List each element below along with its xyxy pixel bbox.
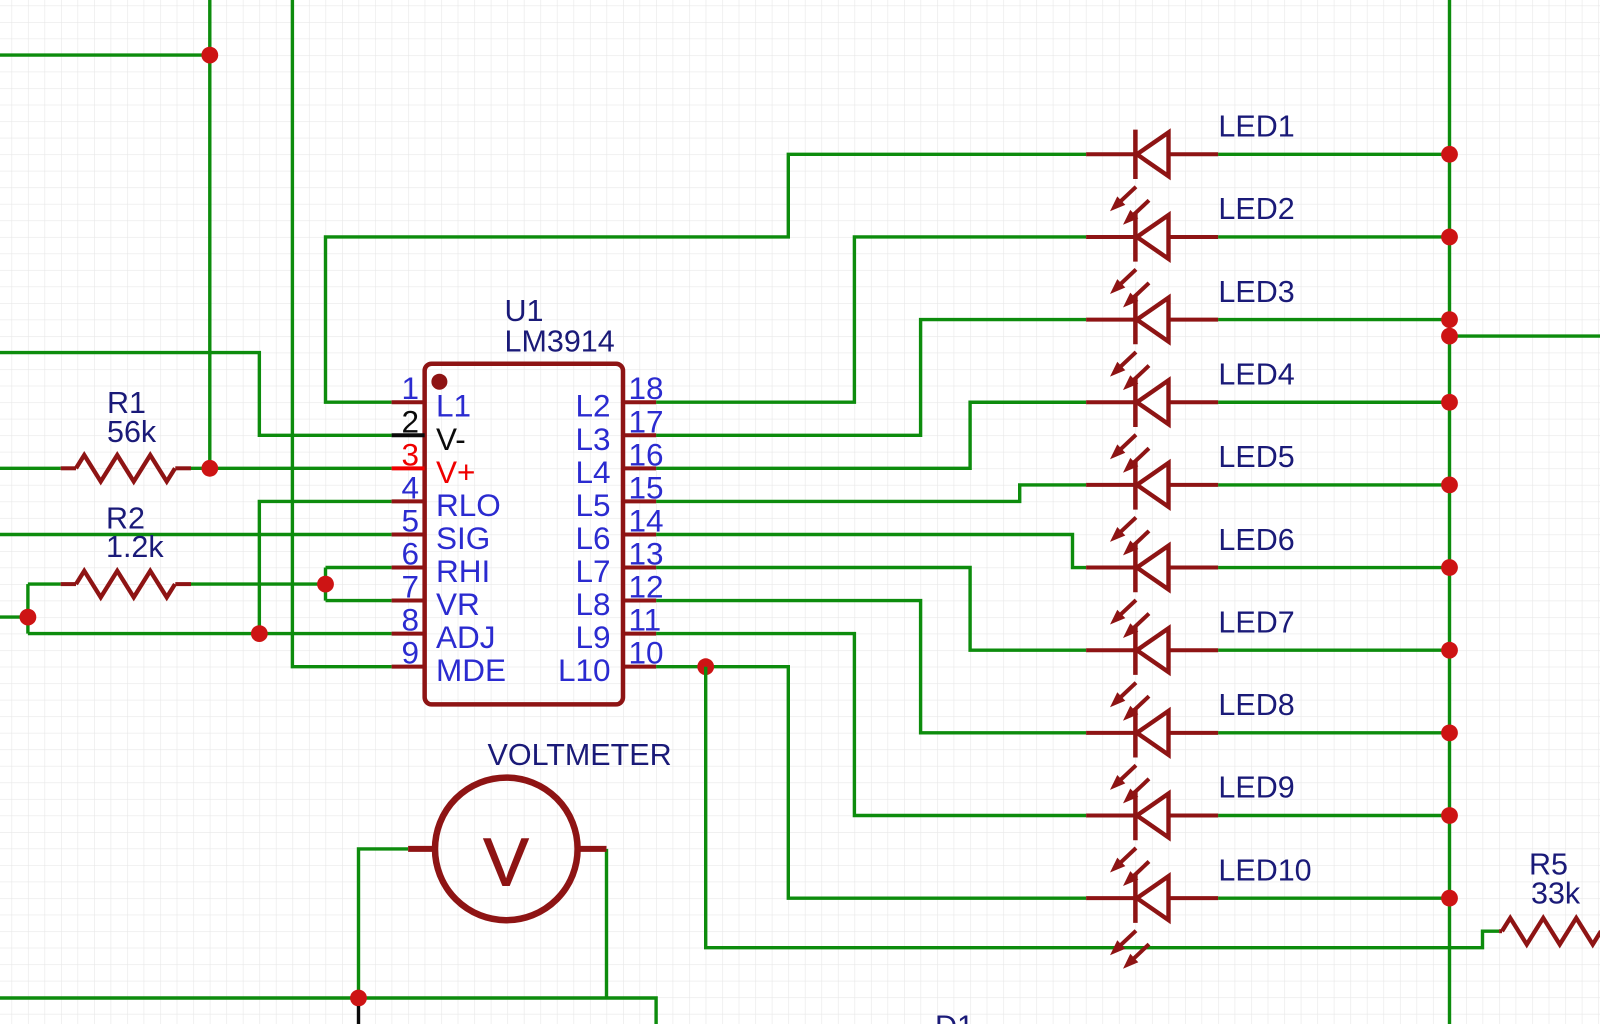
svg-text:D1: D1 — [935, 1010, 974, 1024]
U1 pin 16 (L4) — [575, 436, 663, 490]
wire net L8: U1 pin 12 to LED8 — [656, 601, 1086, 733]
wire L10 branch down to R5 — [706, 667, 1499, 948]
wire VR net to U1 pin 7 — [326, 599, 392, 602]
junction R1 / V+ column — [201, 460, 218, 477]
svg-text:16: 16 — [629, 436, 664, 472]
svg-text:L1: L1 — [436, 388, 471, 424]
svg-text:RLO: RLO — [436, 487, 501, 523]
U1 pin 10 (L10) — [558, 635, 664, 689]
svg-text:SIG: SIG — [436, 520, 490, 556]
LED10 — [1086, 873, 1218, 968]
wire ADJ net horizontal to U1 pin 8 — [28, 632, 392, 635]
junction bus / LED7 — [1441, 642, 1458, 659]
wire net L1: U1 pin 1 to LED1 — [326, 154, 1087, 402]
junction top-left — [201, 47, 218, 64]
wire LED3 anode to bus — [1218, 318, 1449, 321]
svg-text:9: 9 — [401, 635, 419, 671]
svg-text:L6: L6 — [575, 520, 610, 556]
svg-text:LED6: LED6 — [1218, 523, 1294, 557]
U1 pin 18 (L2) — [575, 370, 663, 424]
wire LED8 anode to bus — [1218, 731, 1449, 734]
svg-text:VR: VR — [436, 586, 480, 622]
wire R2 left lead link — [28, 582, 61, 585]
svg-text:15: 15 — [629, 469, 664, 505]
svg-text:VOLTMETER: VOLTMETER — [488, 738, 672, 772]
svg-text:RHI: RHI — [436, 553, 490, 589]
wire V+ net left segment — [0, 467, 61, 470]
LED7 — [1086, 626, 1218, 721]
wire left edge stub into R2 node — [0, 615, 28, 618]
svg-text:13: 13 — [629, 536, 664, 572]
svg-text:LED3: LED3 — [1218, 275, 1294, 309]
junction bus / LED9 — [1441, 807, 1458, 824]
junction R2 / RHI / VR — [317, 576, 334, 593]
junction bus / LED8 — [1441, 724, 1458, 741]
svg-text:LED10: LED10 — [1218, 853, 1311, 887]
svg-text:LED1: LED1 — [1218, 110, 1294, 144]
wire V- net to U1 pin 2 — [0, 353, 392, 436]
svg-text:3: 3 — [401, 436, 419, 472]
resistor R2 — [61, 502, 191, 598]
LED9 — [1086, 791, 1218, 886]
svg-text:LED9: LED9 — [1218, 771, 1294, 805]
wire bottom horizontal — [0, 998, 656, 1024]
wire top-left horizontal net — [0, 53, 210, 56]
svg-text:V+: V+ — [436, 454, 475, 490]
svg-text:1: 1 — [401, 370, 419, 406]
U1 pin 5 (SIG) — [392, 502, 491, 556]
U1 pin 14 (L6) — [575, 502, 663, 556]
U1 pin 8 (ADJ) — [392, 602, 496, 656]
wire net L5: U1 pin 15 to LED5 — [656, 485, 1086, 502]
LED3 — [1086, 295, 1218, 390]
wire voltmeter left — [359, 849, 409, 998]
wire net L7: U1 pin 13 to LED7 — [656, 568, 1086, 651]
wire SIG net to U1 pin 5 — [0, 533, 392, 536]
U1 pin 6 (RHI) — [392, 536, 491, 590]
wire net L9: U1 pin 11 to LED9 — [656, 634, 1086, 816]
U1 pin 12 (L8) — [575, 569, 663, 623]
wire D1 black stub — [357, 1006, 360, 1024]
U1 pin 2 (V-) — [392, 403, 466, 457]
LED5 — [1086, 460, 1218, 555]
U1 pin 17 (L3) — [575, 403, 663, 457]
U1 pin 13 (L7) — [575, 536, 663, 590]
junction bus / LED10 — [1441, 890, 1458, 907]
wire V+ net from R1 to U1 pin 3 — [191, 467, 392, 470]
svg-text:LED4: LED4 — [1218, 357, 1294, 391]
LED6 — [1086, 543, 1218, 638]
svg-text:LED2: LED2 — [1218, 192, 1294, 226]
svg-text:L7: L7 — [575, 553, 610, 589]
wire LED10 anode to bus — [1218, 896, 1449, 899]
wire net L4: U1 pin 16 to LED4 — [656, 402, 1086, 468]
U1 pin 15 (L5) — [575, 469, 663, 523]
svg-text:LED5: LED5 — [1218, 440, 1294, 474]
wire net L10: U1 pin 10 to LED10 — [656, 667, 1086, 898]
svg-text:LED7: LED7 — [1218, 605, 1294, 639]
wire voltmeter right vertical — [605, 849, 608, 998]
wire LED9 anode to bus — [1218, 814, 1449, 817]
wire net L3: U1 pin 17 to LED3 — [656, 320, 1086, 436]
U1 pin 4 (RLO) — [392, 469, 501, 523]
voltmeter M1 — [408, 778, 606, 921]
svg-text:ADJ: ADJ — [436, 619, 496, 655]
svg-text:1.2k: 1.2k — [106, 530, 164, 564]
junction bus / LED2 — [1441, 229, 1458, 246]
svg-text:12: 12 — [629, 569, 664, 605]
U1 pin-1 origin dot — [431, 374, 447, 390]
LED4 — [1086, 378, 1218, 473]
svg-text:L5: L5 — [575, 487, 610, 523]
svg-text:2: 2 — [401, 403, 419, 439]
svg-text:8: 8 — [401, 602, 419, 638]
svg-text:4: 4 — [401, 469, 419, 505]
wire RHI/VR vertical — [324, 568, 327, 601]
svg-text:LM3914: LM3914 — [505, 325, 615, 359]
U1 pin 1 (L1) — [392, 370, 471, 424]
svg-text:7: 7 — [401, 569, 419, 605]
U1 pin 7 (VR) — [392, 569, 480, 623]
svg-text:L4: L4 — [575, 454, 610, 490]
resistor R5 — [1499, 848, 1600, 945]
svg-text:14: 14 — [629, 502, 664, 538]
wire LED1 anode to bus — [1218, 153, 1449, 156]
wire LED4 anode to bus — [1218, 401, 1449, 404]
svg-text:L9: L9 — [575, 619, 610, 655]
wire net L2: U1 pin 18 to LED2 — [656, 237, 1086, 402]
svg-text:33k: 33k — [1531, 877, 1581, 911]
svg-text:L8: L8 — [575, 586, 610, 622]
junction bus / LED1 — [1441, 146, 1458, 163]
LED8 — [1086, 708, 1218, 803]
svg-text:MDE: MDE — [436, 652, 506, 688]
U1 pin 3 (V+) — [392, 436, 476, 490]
svg-text:L3: L3 — [575, 421, 610, 457]
wire RLO net from U1 pin 4 down to ADJ row — [259, 501, 391, 633]
junction bus / LED3 — [1441, 311, 1458, 328]
svg-text:18: 18 — [629, 370, 664, 406]
U1 pin 9 (MDE) — [392, 635, 506, 689]
svg-text:56k: 56k — [107, 415, 157, 449]
junction bus branch — [1441, 328, 1458, 345]
svg-text:V-: V- — [436, 421, 466, 457]
wire R2 right to RHI/VR junction — [191, 582, 326, 585]
svg-text:10: 10 — [629, 635, 664, 671]
junction bus / LED5 — [1441, 477, 1458, 494]
wire MDE net vertical and to U1 pin 9 — [292, 0, 391, 667]
junction ADJ / RLO node — [251, 625, 268, 642]
svg-text:17: 17 — [629, 403, 664, 439]
IC U1 LM3914 body — [425, 294, 623, 704]
junction L10 branch — [697, 658, 714, 675]
svg-text:11: 11 — [629, 602, 662, 638]
LED1 — [1086, 130, 1218, 225]
LED2 — [1086, 212, 1218, 307]
junction bottom / D1 node — [350, 990, 367, 1007]
wire LED7 anode to bus — [1218, 649, 1449, 652]
U1 pin 11 (L9) — [575, 602, 661, 656]
wire net L6: U1 pin 14 to LED6 — [656, 535, 1086, 568]
wire vertical drop to R1 junction — [208, 0, 211, 468]
junction bus / LED4 — [1441, 394, 1458, 411]
svg-text:L2: L2 — [575, 388, 610, 424]
wire LED5 anode to bus — [1218, 483, 1449, 486]
wire R2 left vertical — [26, 584, 29, 634]
junction R2-left node — [20, 609, 37, 626]
wire LED6 anode to bus — [1218, 566, 1449, 569]
svg-text:LED8: LED8 — [1218, 688, 1294, 722]
wire right vertical bus — [1448, 0, 1451, 1024]
svg-text:V: V — [483, 825, 529, 901]
wire LED2 anode to bus — [1218, 235, 1449, 238]
resistor R1 — [61, 386, 191, 482]
junction bus / LED6 — [1441, 559, 1458, 576]
wire bus branch to right edge — [1450, 334, 1600, 337]
svg-text:L10: L10 — [558, 652, 611, 688]
wire RHI net to U1 pin 6 — [326, 566, 392, 569]
svg-text:U1: U1 — [505, 294, 544, 328]
svg-text:5: 5 — [401, 502, 419, 538]
svg-text:6: 6 — [401, 536, 419, 572]
